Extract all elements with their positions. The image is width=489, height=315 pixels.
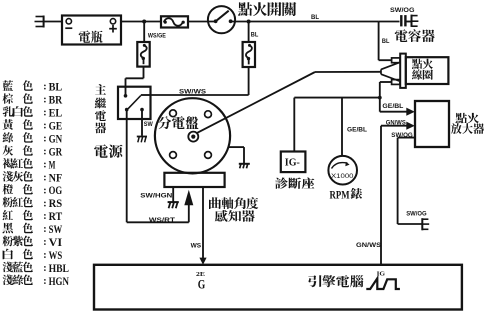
distributor 分電盤 — [155, 98, 230, 173]
ignition waveform symbol — [366, 278, 400, 289]
svg-text:BL: BL — [311, 14, 319, 21]
svg-text:HBL: HBL — [49, 261, 69, 275]
svg-text::: : — [43, 211, 46, 222]
ignition switch S1 點火開關 — [208, 6, 235, 33]
svg-text:SW/OG: SW/OG — [390, 7, 415, 14]
svg-text::: : — [43, 250, 46, 261]
ground symbol (sensor) — [168, 201, 179, 203]
rpm gauge M1 — [328, 156, 357, 185]
ignition coil box 點火線圈 — [406, 57, 449, 84]
wire down from top corner (BL) — [378, 22, 380, 61]
wire fuse F2 down and left to relay — [248, 67, 250, 95]
label 感知器 — [215, 210, 228, 222]
coil HT boot (cone) — [381, 63, 399, 81]
svg-text:X1000: X1000 — [331, 174, 354, 180]
ground symbol (amplifier) — [421, 218, 423, 230]
coil terminal 1 — [392, 58, 400, 63]
junction dot (coil feed tap) — [247, 20, 251, 24]
svg-text::: : — [43, 224, 46, 235]
svg-text::: : — [43, 134, 46, 145]
distributor cap towers — [170, 110, 177, 117]
wire GN/WS into amplifier — [381, 125, 408, 127]
capacitor C1 電容器 — [379, 21, 400, 23]
svg-text::: : — [43, 108, 46, 119]
engine computer box 引擎電腦 — [94, 265, 462, 310]
label 主繼電器 (vertical) — [95, 84, 106, 95]
label 診斷座 — [275, 178, 288, 189]
battery B1 電瓶 — [62, 16, 121, 45]
svg-text:SW: SW — [49, 222, 63, 236]
label 電源 — [94, 145, 108, 158]
svg-text:WS/RT: WS/RT — [149, 218, 175, 224]
svg-text:M: M — [49, 157, 56, 171]
ignition amplifier box — [415, 101, 449, 147]
fuse F1 (main) — [161, 16, 188, 27]
wire fuse F3 to relay — [143, 67, 145, 79]
label 曲軸角度 — [209, 197, 221, 209]
svg-text::: : — [43, 185, 46, 196]
rpm gauge needle arc — [332, 163, 348, 169]
svg-text:BL: BL — [382, 39, 390, 45]
coil connector bar — [400, 54, 406, 88]
svg-text:RT: RT — [49, 209, 63, 223]
wire ground to battery — [44, 21, 62, 23]
wire junction down to fuse F3 — [143, 22, 145, 43]
junction dot (diagnosis feed) — [378, 96, 382, 100]
svg-text:GE/BL: GE/BL — [382, 104, 403, 110]
wire junction down to fuse F2 — [248, 22, 250, 43]
label 點火放大器 — [456, 113, 467, 123]
svg-text:OG: OG — [49, 183, 63, 197]
arrow into crank sensor — [184, 190, 193, 206]
wire coil terminal 3 down (GE/BL) — [380, 81, 392, 83]
fuse F2 (ignition feed) — [243, 42, 255, 67]
svg-text:GR: GR — [49, 144, 63, 158]
junction dot (fuse tap) — [142, 20, 146, 24]
svg-text:RS: RS — [49, 196, 63, 210]
wire fuse F1 to ignition switch — [188, 21, 216, 23]
svg-text::: : — [43, 172, 46, 183]
svg-text:SW/OG: SW/OG — [406, 212, 427, 218]
svg-text::: : — [43, 146, 46, 157]
coil terminal 3 — [392, 80, 400, 85]
svg-text:WS: WS — [191, 243, 202, 249]
svg-text:HGN: HGN — [49, 274, 70, 288]
svg-text::: : — [43, 82, 46, 93]
diagnosis connector box IG- — [281, 152, 306, 173]
svg-text:WS/GE: WS/GE — [148, 32, 166, 39]
svg-text:WS: WS — [49, 248, 63, 262]
svg-text:SW/WS: SW/WS — [179, 89, 206, 96]
svg-text:SW/OG: SW/OG — [391, 133, 413, 139]
ground symbol (relay) — [137, 136, 147, 138]
label 點火開關 — [238, 2, 252, 16]
label 分電盤 — [158, 116, 171, 129]
svg-text:NF: NF — [49, 170, 63, 184]
wire BL into coil terminal 1 — [379, 59, 392, 61]
svg-text:VI: VI — [49, 235, 63, 249]
ground symbol (capacitor) — [411, 15, 413, 27]
wire sensor to computer (WS) — [202, 187, 204, 258]
svg-text::: : — [43, 237, 46, 248]
svg-text::: : — [43, 276, 46, 287]
wire relay to ground (SW) — [141, 119, 143, 136]
svg-text::: : — [43, 198, 46, 209]
svg-text::: : — [43, 95, 46, 106]
svg-text:GN: GN — [49, 131, 63, 145]
svg-text:EL: EL — [49, 106, 63, 120]
wire to diagnosis connector — [294, 97, 380, 99]
svg-text:RPM: RPM — [330, 187, 350, 201]
fuse F3 (relay feed) — [137, 42, 149, 67]
ground symbol (distributor) — [239, 163, 250, 165]
svg-text::: : — [43, 159, 46, 170]
colour code legend — [3, 80, 13, 90]
svg-text:SW: SW — [144, 122, 153, 128]
wire SW/OG amplifier ground — [398, 137, 415, 139]
rotor high-tension lead to coil — [197, 72, 316, 133]
distributor ground wire — [229, 146, 244, 148]
crank angle sensor box — [164, 173, 224, 187]
wire switch to capacitor corner — [231, 21, 379, 23]
distributor centre hub — [188, 132, 198, 142]
wire relay to crank sensor (WS/RT) — [126, 119, 128, 222]
wire battery to junction — [121, 21, 144, 23]
label 點火線圈 — [412, 59, 422, 69]
svg-text:BL: BL — [49, 80, 63, 94]
wire to rpm gauge — [341, 98, 343, 156]
svg-text:GE/BL: GE/BL — [347, 128, 367, 134]
sensor ground wire — [172, 187, 174, 202]
arrow into amplifier (GN/WS) — [406, 122, 415, 130]
svg-text::: : — [43, 121, 46, 132]
svg-text:GN/WS: GN/WS — [356, 243, 381, 249]
label 引擎電腦 — [308, 275, 321, 287]
arrow into computer (WS) — [199, 258, 206, 265]
wire GN/WS down to computer — [380, 126, 382, 264]
svg-text::: : — [43, 263, 46, 274]
svg-text:GE: GE — [49, 118, 63, 132]
wire junction to fuse F1 — [144, 21, 161, 23]
svg-text:SW/HGN: SW/HGN — [140, 193, 172, 199]
label 電容器 — [395, 29, 408, 42]
arrow into amplifier (GE/BL) — [406, 108, 415, 116]
svg-text:G: G — [198, 276, 206, 291]
svg-text:BR: BR — [49, 93, 63, 107]
main relay K1 主繼電器 — [118, 87, 151, 119]
svg-text:IG-: IG- — [285, 158, 300, 169]
ground symbol (battery negative) — [43, 16, 45, 28]
svg-text:GN/WS: GN/WS — [386, 121, 406, 127]
svg-text:BL: BL — [251, 31, 259, 38]
